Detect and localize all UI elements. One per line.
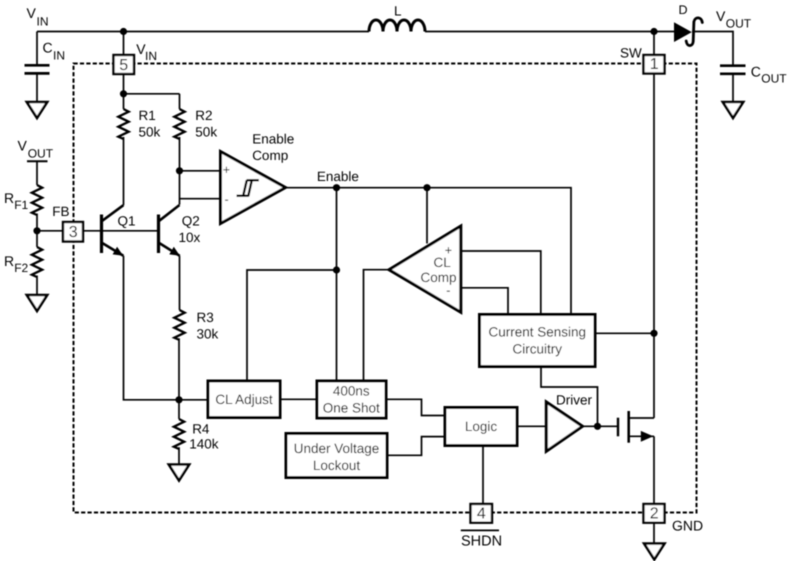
pin 4 box SHDN [471,504,493,523]
svg-text:Enable: Enable [252,132,294,147]
label R3 30k [197,310,219,342]
label Driver [556,392,593,407]
svg-text:C: C [751,64,761,80]
svg-text:2: 2 [650,506,659,523]
wire CL Comp output to One Shot [364,270,390,381]
wire Current Sensing to SW rail [595,332,654,334]
svg-text:SHDN: SHDN [461,534,502,550]
label Q2 10x [179,213,201,245]
wire One Shot to Logic [386,399,445,415]
ground R4 [169,465,189,481]
wire UVL to Logic [387,437,445,456]
diode D [674,18,702,46]
svg-text:V: V [716,8,726,24]
pin 2 box GND [644,504,665,523]
junction SW rail current sense [650,330,657,337]
label R1 50k [139,108,161,140]
wire top rail to pin 5 [123,32,125,55]
net Enable wire [286,188,572,315]
transistor M1 power NMOS [618,411,654,443]
label COUT [751,64,788,86]
wire CL Adjust to One Shot [280,398,317,400]
svg-text:Current Sensing: Current Sensing [489,325,587,340]
pin 5 label VIN [136,41,157,63]
svg-text:R: R [4,253,14,269]
svg-text:IN: IN [145,49,157,63]
ground CIN [27,102,47,118]
label R2 50k [195,108,217,140]
label RF1 [4,190,29,212]
label Enable [317,169,359,184]
junction R3 R4 CL Adjust [175,396,182,403]
wire junction to pin 1 [653,32,655,56]
svg-text:Driver: Driver [556,392,593,407]
svg-text:OUT: OUT [726,17,752,31]
resistor R3 [174,310,184,400]
wire tee to CL Adjust [247,270,337,381]
wire source to pin2 [653,436,655,504]
svg-text:-: - [446,283,450,297]
junction R2 bottom node [176,167,183,174]
wire R2 node down to Q2 collector [179,171,181,205]
svg-text:CL: CL [434,255,452,270]
capacitor COUT [720,66,746,102]
svg-text:50k: 50k [139,125,161,140]
junction gate node [594,423,601,430]
wire Logic to pin 4 [482,446,484,505]
op-amp Enable Comp [221,152,286,224]
svg-text:D: D [679,3,688,17]
comparator CL Comp [389,226,461,312]
junction top rail SW [650,28,657,35]
node VOUT label left [18,137,54,161]
wire Current Sensing to gate node [541,367,598,427]
svg-text:Circuitry: Circuitry [513,342,563,357]
svg-text:140k: 140k [189,437,219,452]
svg-text:1: 1 [650,56,659,73]
wire node to Enable Comp minus input [180,198,221,200]
svg-text:+: + [223,163,230,177]
node VOUT label right [716,8,752,31]
wire VIN rail to inductor [37,31,369,33]
svg-text:F1: F1 [14,198,28,212]
svg-text:R1: R1 [139,108,156,123]
svg-text:Under Voltage: Under Voltage [294,441,380,456]
wire FB node to pin 3 [37,230,63,232]
svg-text:R: R [4,190,14,206]
label FB [52,204,69,219]
svg-text:R2: R2 [195,108,212,123]
svg-text:CL Adjust: CL Adjust [215,392,273,407]
wire CL Comp plus input to Current Sensing [461,251,541,315]
wire R2 node to Enable Comp plus input [180,170,221,172]
pin 5 box [114,55,135,74]
IC boundary dashed box [74,64,697,513]
svg-text:Logic: Logic [465,419,498,434]
block 400ns One Shot [317,381,386,418]
transistor Q2 [159,205,180,256]
label SHDN with overbar [461,530,502,549]
label CIN [43,40,66,63]
svg-text:R4: R4 [192,422,210,437]
label RF2 [4,253,29,275]
junction top rail at pin5 [120,28,127,35]
wire CL Comp minus input to Current Sensing [461,288,508,315]
svg-text:V: V [18,137,28,153]
pin 3 box [63,222,83,242]
transistor Q1 [102,205,124,256]
svg-text:50k: 50k [195,125,217,140]
svg-text:One Shot: One Shot [323,401,380,416]
svg-text:IN: IN [37,15,49,29]
label SW [620,46,642,61]
wire Q2 emitter to R3 [179,256,181,310]
svg-text:Lockout: Lockout [313,458,361,473]
wire diode cathode to VOUT corner down to COUT [692,32,733,66]
svg-text:3: 3 [69,224,78,241]
block Under Voltage Lockout [286,434,387,478]
svg-text:IN: IN [53,49,65,63]
wire inductor to diode anode [425,31,674,33]
resistor R4 [174,400,184,465]
svg-text:GND: GND [672,517,703,533]
wire SW rail drain to pin1 [653,73,655,418]
svg-text:5: 5 [119,57,128,74]
wire pin5 to R1 R2 tops [124,74,180,94]
svg-text:L: L [394,4,402,19]
label D [679,3,688,17]
ground COUT [723,102,743,118]
svg-text:400ns: 400ns [333,384,370,399]
resistor RF2 [32,231,42,295]
svg-text:10x: 10x [179,230,201,245]
junction Enable to One Shot [333,184,340,191]
label L [394,4,402,19]
junction tee to CL Adjust [333,266,340,273]
buffer Driver [546,402,582,451]
wire pin3 to Q1 Q2 bases [83,230,159,232]
svg-text:Enable: Enable [317,169,359,184]
svg-text:Comp: Comp [252,148,288,163]
wire Driver to gate [583,425,618,427]
svg-text:-: - [225,192,229,206]
svg-text:FB: FB [52,204,69,219]
block Current Sensing Circuitry [480,315,596,367]
svg-text:V: V [27,5,37,21]
svg-text:OUT: OUT [761,72,787,86]
junction Enable to CL Comp [423,184,430,191]
ground GND pin [644,544,664,560]
svg-text:F2: F2 [14,261,28,275]
svg-text:Q1: Q1 [118,214,136,229]
junction FB divider [33,227,40,234]
svg-text:OUT: OUT [28,147,54,161]
wire Q1 emitter down to R3 R4 node [124,256,180,400]
label GND [672,517,703,533]
wire Enable branch to CL Comp [426,188,428,244]
svg-text:Comp: Comp [421,270,457,285]
block Logic [445,408,517,446]
node VIN label [27,5,49,29]
resistor R2 [174,94,184,171]
svg-text:C: C [43,40,53,56]
wire R3 R4 node to CL Adjust [179,399,208,401]
capacitor CIN [25,32,50,103]
junction R1 top [120,90,127,97]
label R4 140k [189,422,219,452]
ground RF2 [27,295,47,311]
resistor RF1 [32,161,42,231]
wire pin2 to ground [653,523,655,544]
pin 1 box SW [644,55,665,74]
wire Logic to Driver [517,425,546,427]
svg-text:SW: SW [620,46,642,61]
block CL Adjust [208,381,280,418]
resistor R1 [118,94,128,206]
wire Enable down to One Shot [336,188,338,381]
label Q1 [118,214,136,229]
svg-text:30k: 30k [197,327,219,342]
inductor L [369,20,425,32]
label Enable Comp [252,132,294,164]
svg-text:Q2: Q2 [182,213,200,228]
svg-text:R3: R3 [197,310,214,325]
svg-text:4: 4 [477,506,486,523]
